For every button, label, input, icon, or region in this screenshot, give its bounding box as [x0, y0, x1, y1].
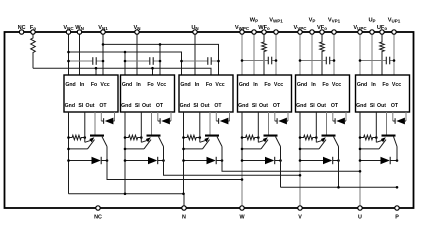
- svg-text:In: In: [371, 82, 376, 88]
- svg-text:VWPC: VWPC: [235, 25, 250, 31]
- svg-text:SI: SI: [193, 103, 198, 109]
- svg-text:In: In: [80, 82, 85, 88]
- svg-text:SI: SI: [135, 103, 140, 109]
- svg-text:VNC: VNC: [63, 25, 74, 31]
- svg-text:Fo: Fo: [147, 82, 153, 88]
- svg-text:Vcc: Vcc: [332, 82, 341, 88]
- svg-text:U: U: [358, 215, 362, 221]
- svg-text:Out: Out: [201, 103, 210, 109]
- svg-text:Fo: Fo: [382, 82, 388, 88]
- svg-text:Gnd: Gnd: [65, 82, 75, 88]
- svg-text:SI: SI: [310, 103, 315, 109]
- svg-text:In: In: [253, 82, 258, 88]
- svg-text:Gnd: Gnd: [238, 103, 248, 109]
- svg-text:In: In: [136, 82, 141, 88]
- svg-text:Out: Out: [259, 103, 268, 109]
- svg-text:OT: OT: [273, 103, 281, 109]
- svg-text:UN: UN: [191, 25, 198, 31]
- svg-text:Vcc: Vcc: [392, 82, 401, 88]
- svg-text:Fo: Fo: [322, 82, 328, 88]
- svg-text:Fo: Fo: [264, 82, 270, 88]
- svg-text:Fo: Fo: [206, 82, 212, 88]
- svg-text:Out: Out: [377, 103, 386, 109]
- svg-text:Vcc: Vcc: [157, 82, 166, 88]
- svg-text:VWP1: VWP1: [269, 18, 283, 24]
- svg-text:Gnd: Gnd: [356, 103, 366, 109]
- svg-text:Gnd: Gnd: [122, 82, 132, 88]
- svg-text:Gnd: Gnd: [296, 103, 306, 109]
- svg-text:Gnd: Gnd: [180, 82, 190, 88]
- svg-text:VN: VN: [133, 25, 140, 31]
- svg-text:V: V: [298, 215, 302, 221]
- svg-text:Out: Out: [86, 103, 95, 109]
- svg-text:Gnd: Gnd: [297, 82, 307, 88]
- svg-text:Gnd: Gnd: [357, 82, 367, 88]
- svg-text:OT: OT: [99, 103, 107, 109]
- svg-text:WP: WP: [250, 18, 258, 24]
- svg-text:In: In: [195, 82, 200, 88]
- svg-text:OT: OT: [391, 103, 399, 109]
- svg-text:WFo: WFo: [258, 25, 270, 31]
- svg-text:VUP1: VUP1: [388, 18, 401, 24]
- svg-text:Gnd: Gnd: [239, 82, 249, 88]
- svg-text:WN: WN: [75, 25, 84, 31]
- svg-text:SI: SI: [78, 103, 83, 109]
- svg-text:NC: NC: [18, 25, 26, 31]
- svg-text:VVPC: VVPC: [293, 25, 307, 31]
- svg-text:Gnd: Gnd: [65, 103, 75, 109]
- svg-text:SI: SI: [370, 103, 375, 109]
- svg-text:N: N: [182, 215, 186, 221]
- svg-text:VVP1: VVP1: [328, 18, 341, 24]
- svg-text:Fo: Fo: [91, 82, 97, 88]
- svg-text:Gnd: Gnd: [180, 103, 190, 109]
- svg-text:OT: OT: [156, 103, 164, 109]
- svg-text:OT: OT: [214, 103, 222, 109]
- svg-text:Vcc: Vcc: [215, 82, 224, 88]
- svg-text:NC: NC: [94, 215, 102, 221]
- svg-text:Fo: Fo: [30, 25, 36, 31]
- svg-text:VFo: VFo: [317, 25, 327, 31]
- svg-text:P: P: [395, 215, 399, 221]
- svg-text:In: In: [311, 82, 316, 88]
- svg-text:VN1: VN1: [98, 25, 108, 31]
- svg-text:OT: OT: [331, 103, 339, 109]
- svg-text:Out: Out: [142, 103, 151, 109]
- svg-text:SI: SI: [252, 103, 257, 109]
- svg-text:Vcc: Vcc: [274, 82, 283, 88]
- svg-text:Vcc: Vcc: [100, 82, 109, 88]
- svg-text:Out: Out: [317, 103, 326, 109]
- svg-text:UFo: UFo: [377, 25, 388, 31]
- svg-text:VP: VP: [309, 18, 316, 24]
- svg-text:UP: UP: [368, 18, 375, 24]
- svg-text:VUPC: VUPC: [353, 25, 367, 31]
- svg-text:Gnd: Gnd: [121, 103, 131, 109]
